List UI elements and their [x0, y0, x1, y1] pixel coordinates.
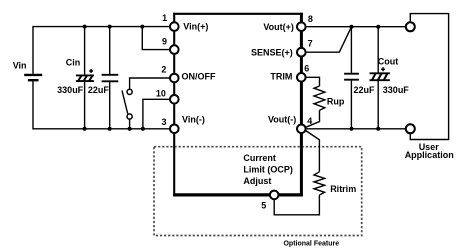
pin 4 circle: [297, 125, 306, 134]
wire: input top rail and battery top lead: [33, 27, 170, 74]
svg-text:10: 10: [156, 89, 166, 99]
svg-text:330uF: 330uF: [57, 85, 84, 95]
capacitor Cout 330uF (polarized): [370, 67, 390, 80]
power module U1 body: [173, 13, 303, 197]
switch S1: [122, 89, 132, 119]
svg-text:Adjust: Adjust: [243, 176, 271, 186]
resistor Rup: [314, 86, 325, 110]
wire: pin 9 loop from top rail: [142, 27, 170, 50]
svg-text:Application: Application: [405, 150, 454, 160]
terminal circle Vout(+) to user: [406, 22, 415, 31]
pin 3 circle: [170, 125, 179, 134]
svg-text:Optional Feature: Optional Feature: [283, 241, 339, 248]
pin 8 circle: [297, 22, 306, 31]
svg-text:7: 7: [308, 38, 313, 48]
pin 5 circle: [270, 191, 279, 200]
wire: Cin 330uF bottom lead: [84, 82, 86, 129]
wire: Cin 330uF top lead: [84, 27, 86, 75]
svg-text:2: 2: [161, 65, 166, 75]
wire: Vout(-) rail pin 4: [305, 128, 405, 130]
svg-text:Vin: Vin: [13, 60, 27, 70]
battery source Vin: [24, 75, 42, 80]
optional feature dashed box: [154, 147, 362, 236]
svg-text:Current: Current: [243, 153, 276, 163]
resistor Ritrim: [314, 172, 325, 195]
wire: Cout 330uF top lead: [377, 27, 379, 73]
svg-text:Limit (OCP): Limit (OCP): [243, 165, 293, 175]
svg-text:22uF: 22uF: [354, 85, 376, 95]
capacitor 22uF (input): [102, 75, 119, 82]
pin 6 circle: [297, 73, 306, 82]
svg-text:8: 8: [308, 14, 313, 24]
wire: 22uF output top lead: [350, 27, 352, 73]
svg-text:Cin: Cin: [66, 57, 81, 67]
pin 10 circle: [170, 95, 179, 104]
wire: battery bottom lead and input bottom rail: [33, 81, 170, 129]
svg-text:330uF: 330uF: [383, 85, 410, 95]
pin 9 circle: [170, 45, 179, 54]
svg-text:1: 1: [162, 13, 167, 23]
wire: Cin 22uF bottom lead: [109, 82, 111, 129]
svg-text:Rup: Rup: [327, 97, 345, 107]
svg-text:Vin(+): Vin(+): [183, 22, 208, 32]
wire: Cin 22uF top lead: [109, 27, 111, 74]
junction dots input rails: [83, 25, 145, 131]
svg-text:TRIM: TRIM: [270, 72, 292, 82]
svg-text:Vin(-): Vin(-): [182, 115, 205, 125]
pin 2 circle: [170, 74, 179, 83]
wire: Cout bottom lead: [377, 81, 379, 129]
svg-text:9: 9: [162, 36, 167, 46]
wire: 22uF output bottom lead: [350, 81, 352, 129]
wire: pin 2 to switch: [130, 78, 170, 89]
user application box: [410, 14, 448, 140]
wire: Rup bottom lead to pin 4: [306, 110, 320, 127]
svg-text:4: 4: [307, 116, 312, 126]
svg-text:Vout(+): Vout(+): [263, 22, 294, 32]
wire: switch bottom lead: [129, 119, 131, 129]
svg-text:3: 3: [161, 117, 166, 127]
capacitor Cin 330uF (polarized): [76, 69, 94, 81]
svg-text:Vout(-): Vout(-): [268, 115, 296, 125]
svg-text:ON/OFF: ON/OFF: [182, 72, 216, 82]
svg-text:Ritrim: Ritrim: [330, 184, 356, 194]
wire: Ritrim bottom to pin 5: [274, 195, 319, 215]
svg-text:5: 5: [261, 201, 266, 211]
capacitor 22uF (output): [344, 74, 359, 80]
svg-text:6: 6: [304, 64, 309, 74]
terminal circle Vout(-) to user: [406, 124, 415, 133]
junction dots output rails: [350, 25, 381, 131]
wire: pin 4 to Ritrim: [306, 131, 320, 172]
svg-text:22uF: 22uF: [88, 85, 110, 95]
svg-text:Cout: Cout: [378, 57, 399, 67]
wire: TRIM to Rup: [305, 77, 319, 86]
svg-text:SENSE(+): SENSE(+): [251, 48, 293, 58]
wire: pin 10 to bottom rail: [143, 99, 170, 129]
wire: SENSE(+) to Vout rail: [305, 27, 351, 53]
wire: Vout(+) rail pin 8: [305, 26, 405, 28]
pin 1 circle: [170, 22, 179, 31]
pin 7 circle: [297, 48, 306, 57]
